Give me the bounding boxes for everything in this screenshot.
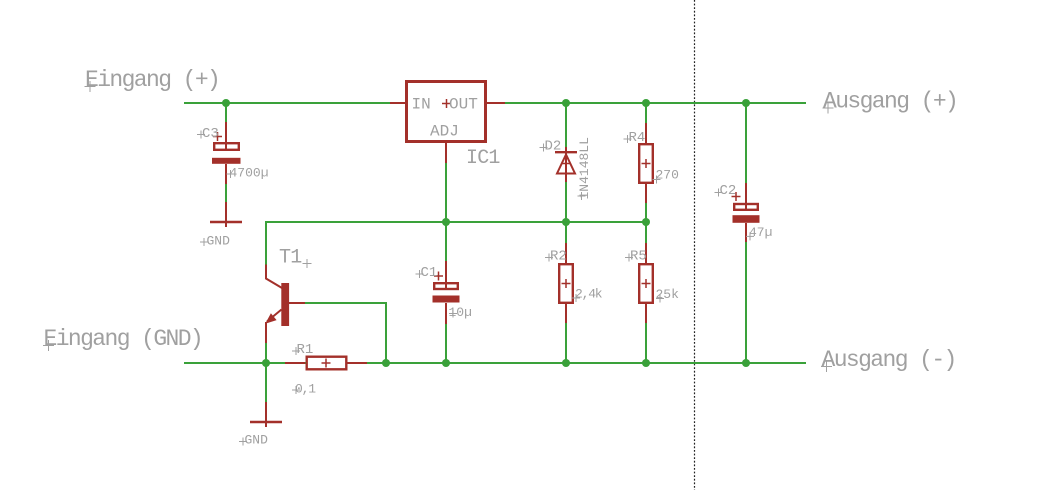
svg-text:Ausgang (+): Ausgang (+): [823, 89, 957, 115]
svg-text:R2: R2: [550, 249, 567, 265]
svg-text:25k: 25k: [656, 287, 680, 302]
capacitor C1: [433, 261, 460, 324]
wire D2 branch: [565, 103, 567, 222]
frame separator dotted line: [694, 0, 696, 490]
junction middle bus at R4/R5: [642, 218, 650, 226]
junction bottom bus at base wire: [382, 359, 390, 367]
svg-text:R5: R5: [630, 249, 647, 265]
wire C2 branch upper: [745, 103, 747, 183]
op-amp regulator IC1: [390, 82, 505, 164]
wire middle ADJ bus: [266, 222, 646, 265]
transistor T1: [265, 265, 305, 344]
svg-text:OUT: OUT: [449, 96, 478, 114]
wire C3 branch lower: [225, 184, 227, 202]
svg-text:0,1: 0,1: [295, 382, 316, 397]
junction top bus at R4: [642, 99, 650, 107]
resistor R1: [285, 357, 367, 370]
svg-text:R4: R4: [629, 130, 646, 146]
junction bottom bus at C2: [742, 359, 750, 367]
svg-text:10µ: 10µ: [449, 305, 472, 320]
wire ADJ pin to bus: [445, 163, 447, 222]
wire bottom bus Ausgang(-): [184, 362, 806, 364]
wire R4 branch: [645, 103, 647, 222]
resistor R4: [639, 123, 653, 203]
junction middle bus at C1: [442, 218, 450, 226]
wire C1 branch upper: [445, 222, 447, 261]
svg-text:GND: GND: [245, 433, 269, 448]
svg-text:IC1: IC1: [466, 147, 500, 170]
capacitor C2: [732, 183, 760, 242]
svg-text:T1: T1: [279, 247, 302, 270]
junction top bus at D2: [562, 99, 570, 107]
wire T1 base to bottom bus: [305, 303, 386, 363]
resistor R2: [559, 243, 573, 323]
svg-text:1N4148LL: 1N4148LL: [577, 137, 592, 199]
ground GND under T1 emitter: [250, 402, 282, 427]
svg-text:GND: GND: [207, 234, 231, 249]
svg-text:D2: D2: [545, 139, 562, 155]
svg-text:ADJ: ADJ: [430, 123, 459, 141]
junction bottom bus at R5: [642, 359, 650, 367]
wire R5 branch: [645, 222, 647, 363]
svg-text:47µ: 47µ: [749, 225, 772, 240]
wire R2 branch: [565, 222, 567, 363]
wire C2 branch lower: [745, 242, 747, 363]
svg-text:IN: IN: [412, 96, 431, 114]
svg-text:Eingang (GND): Eingang (GND): [44, 326, 203, 352]
wire T1 emitter to bottom bus and GND: [265, 343, 267, 402]
svg-text:4700µ: 4700µ: [230, 166, 269, 181]
wire C1 branch lower: [445, 324, 447, 363]
wire top bus Ausgang(+): [184, 102, 806, 104]
junction middle bus at R2: [562, 218, 570, 226]
svg-text:R1: R1: [297, 342, 314, 358]
junction bottom bus at C1: [442, 359, 450, 367]
ground GND under C3: [210, 202, 242, 227]
capacitor C3: [212, 122, 241, 184]
junction top bus at C2: [742, 99, 750, 107]
wire C3 branch upper: [225, 103, 227, 122]
svg-text:2,4k: 2,4k: [575, 287, 603, 302]
junction bottom bus at R2: [562, 359, 570, 367]
resistor R5: [639, 243, 653, 323]
svg-text:Eingang (+): Eingang (+): [85, 67, 219, 93]
svg-text:C1: C1: [421, 265, 438, 281]
junction bottom bus at T1 emitter: [262, 359, 270, 367]
junction top bus at C3: [222, 99, 230, 107]
svg-text:Ausgang (-): Ausgang (-): [822, 347, 956, 373]
svg-text:270: 270: [656, 168, 679, 183]
diode D2: [555, 147, 577, 182]
svg-text:C2: C2: [720, 183, 737, 199]
